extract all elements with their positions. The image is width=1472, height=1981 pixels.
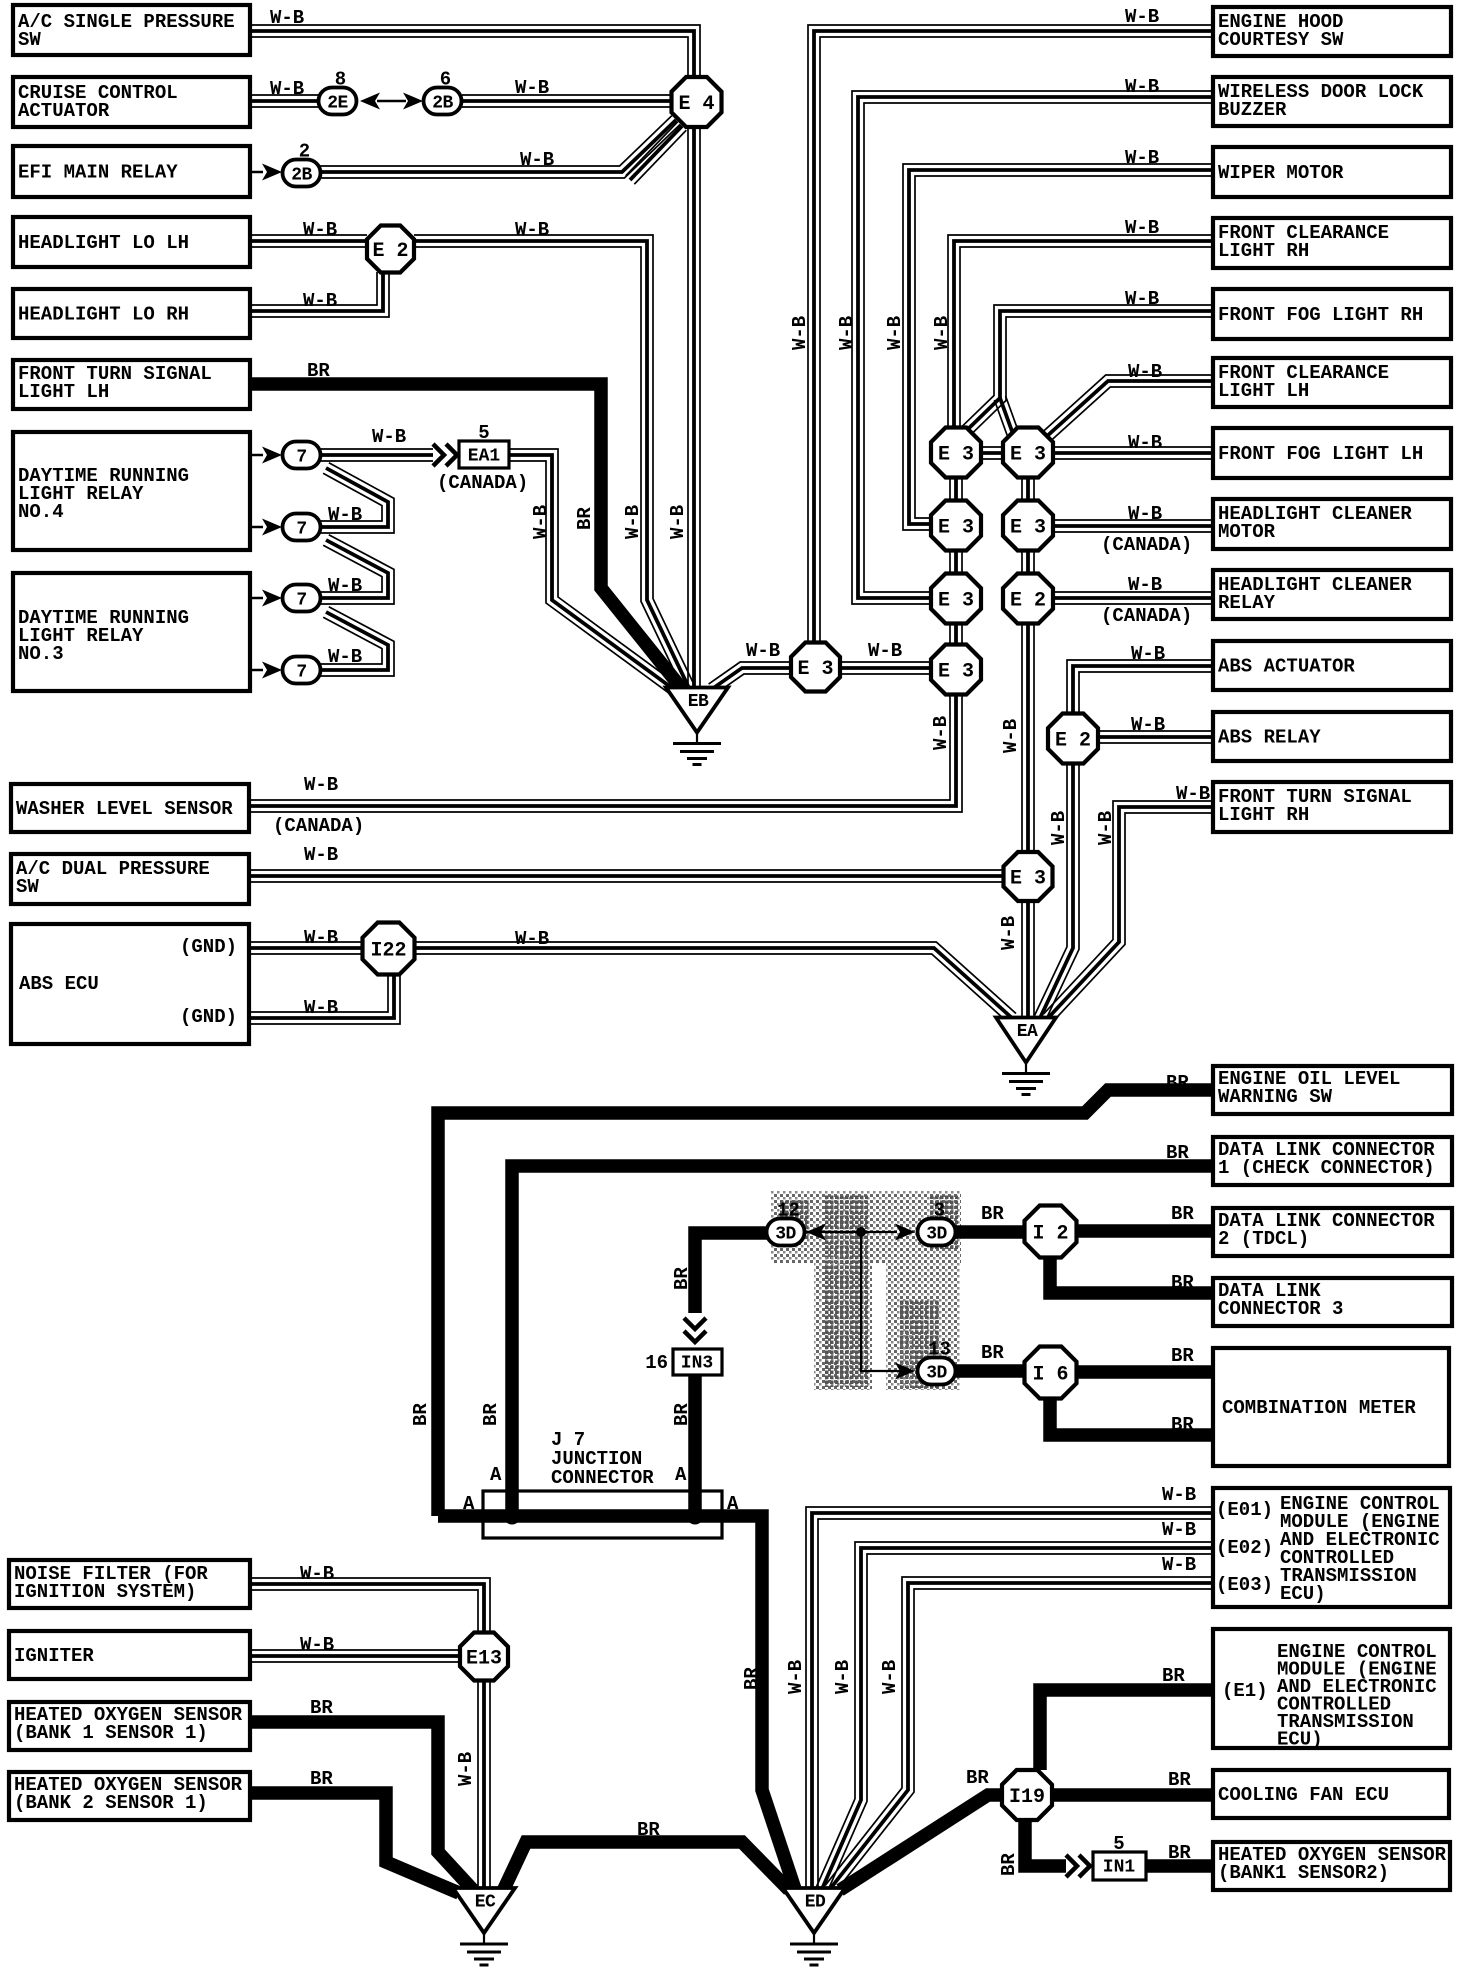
svg-text:BR: BR [1162,1665,1185,1687]
svg-text:SW: SW [18,29,41,51]
svg-text:W-B: W-B [931,316,953,350]
svg-text:W-B: W-B [1162,1484,1196,1506]
svg-text:E 3: E 3 [938,516,974,539]
svg-text:A/C SINGLE PRESSURE: A/C SINGLE PRESSURE [18,11,235,33]
svg-text:W-B: W-B [1131,643,1165,665]
svg-text:E 4: E 4 [678,93,714,116]
svg-text:ED: ED [805,1892,826,1912]
svg-text:BR: BR [966,1767,989,1789]
svg-text:W-B: W-B [1048,811,1070,845]
svg-text:W-B: W-B [530,505,552,539]
svg-text:W-B: W-B [1128,432,1162,454]
svg-text:E13: E13 [466,1647,502,1670]
svg-text:W-B: W-B [884,316,906,350]
svg-text:W-B: W-B [304,927,338,949]
svg-text:BUZZER: BUZZER [1218,99,1287,121]
svg-text:E 2: E 2 [1010,589,1046,612]
svg-text:W-B: W-B [515,219,549,241]
svg-text:(E1): (E1) [1222,1680,1268,1702]
svg-text:7: 7 [296,519,306,539]
svg-text:NO.4: NO.4 [18,501,64,523]
svg-text:W-B: W-B [303,290,337,312]
svg-text:2B: 2B [291,165,312,185]
svg-text:A: A [675,1464,687,1486]
svg-text:1 (CHECK CONNECTOR): 1 (CHECK CONNECTOR) [1218,1157,1435,1179]
svg-text:HEADLIGHT LO LH: HEADLIGHT LO LH [18,232,189,254]
svg-text:BR: BR [310,1697,333,1719]
svg-text:W-B: W-B [372,426,406,448]
svg-text:W-B: W-B [300,1634,334,1656]
svg-text:W-B: W-B [785,1660,807,1694]
svg-text:A/C DUAL PRESSURE: A/C DUAL PRESSURE [16,858,210,880]
svg-text:13: 13 [928,1339,951,1361]
svg-text:EA: EA [1017,1022,1038,1042]
svg-text:3D: 3D [926,1224,947,1244]
svg-text:E 3: E 3 [1010,867,1046,890]
svg-text:ABS ACTUATOR: ABS ACTUATOR [1218,656,1355,678]
svg-text:W-B: W-B [879,1660,901,1694]
svg-text:W-B: W-B [1000,719,1022,753]
svg-text:W-B: W-B [304,844,338,866]
svg-text:ABS RELAY: ABS RELAY [1218,727,1321,749]
svg-text:(CANADA): (CANADA) [273,815,364,837]
svg-text:W-B: W-B [1176,783,1210,805]
svg-text:BR: BR [1171,1203,1194,1225]
svg-text:LIGHT RH: LIGHT RH [1218,804,1309,826]
svg-text:COMBINATION METER: COMBINATION METER [1222,1397,1416,1419]
svg-text:A: A [727,1493,739,1515]
svg-text:E 2: E 2 [1055,729,1091,752]
svg-text:BR: BR [998,1853,1020,1876]
svg-text:LIGHT RH: LIGHT RH [1218,240,1309,262]
svg-text:IN3: IN3 [681,1353,713,1373]
svg-text:3: 3 [934,1200,945,1222]
svg-text:W-B: W-B [836,316,858,350]
svg-text:W-B: W-B [1125,6,1159,28]
svg-text:(E03): (E03) [1216,1574,1273,1596]
svg-text:16: 16 [645,1352,668,1374]
svg-text:6: 6 [440,69,451,91]
svg-text:SW: SW [16,876,39,898]
svg-text:(BANK 2 SENSOR 1): (BANK 2 SENSOR 1) [14,1792,208,1814]
svg-text:BR: BR [671,1403,693,1426]
svg-text:BR: BR [1171,1414,1194,1436]
svg-text:W-B: W-B [304,774,338,796]
svg-text:BR: BR [981,1203,1004,1225]
svg-text:W-B: W-B [520,149,554,171]
svg-text:FRONT FOG LIGHT LH: FRONT FOG LIGHT LH [1218,443,1423,465]
svg-text:W-B: W-B [1162,1554,1196,1576]
svg-text:W-B: W-B [515,77,549,99]
svg-text:2 (TDCL): 2 (TDCL) [1218,1228,1309,1250]
svg-text:WARNING SW: WARNING SW [1218,1086,1333,1108]
svg-text:W-B: W-B [1128,361,1162,383]
svg-text:W-B: W-B [746,640,780,662]
svg-text:5: 5 [1113,1833,1124,1855]
svg-text:BR: BR [1168,1769,1191,1791]
svg-text:W-B: W-B [789,316,811,350]
svg-text:BR: BR [741,1667,763,1690]
svg-text:I 2: I 2 [1032,1222,1068,1245]
svg-text:BR: BR [307,360,330,382]
svg-text:BR: BR [637,1819,660,1841]
svg-text:W-B: W-B [304,997,338,1019]
svg-text:EB: EB [688,692,709,712]
svg-text:(E02): (E02) [1216,1537,1273,1559]
svg-text:E 3: E 3 [938,589,974,612]
svg-text:BR: BR [1166,1072,1189,1094]
svg-text:W-B: W-B [1162,1519,1196,1541]
svg-text:NO.3: NO.3 [18,643,64,665]
svg-text:ECU): ECU) [1277,1729,1323,1751]
svg-text:E 3: E 3 [938,660,974,683]
svg-text:W-B: W-B [868,640,902,662]
svg-text:LIGHT LH: LIGHT LH [1218,380,1309,402]
svg-text:COURTESY SW: COURTESY SW [1218,29,1344,51]
svg-text:W-B: W-B [1128,503,1162,525]
svg-text:MOTOR: MOTOR [1218,521,1276,543]
svg-text:W-B: W-B [832,1660,854,1694]
svg-text:W-B: W-B [1125,288,1159,310]
svg-text:W-B: W-B [1125,76,1159,98]
svg-text:CONNECTOR: CONNECTOR [551,1467,654,1489]
svg-text:W-B: W-B [303,219,337,241]
svg-text:BR: BR [1166,1142,1189,1164]
svg-text:ECU): ECU) [1280,1583,1326,1605]
svg-text:WIPER MOTOR: WIPER MOTOR [1218,162,1344,184]
svg-text:W-B: W-B [667,505,689,539]
svg-text:HEADLIGHT LO RH: HEADLIGHT LO RH [18,304,189,326]
svg-text:BR: BR [1171,1272,1194,1294]
svg-text:IGNITER: IGNITER [14,1645,94,1667]
svg-text:3D: 3D [775,1224,796,1244]
svg-text:I 6: I 6 [1032,1363,1068,1386]
svg-text:WASHER LEVEL SENSOR: WASHER LEVEL SENSOR [16,798,233,820]
svg-text:(BANK 1 SENSOR 1): (BANK 1 SENSOR 1) [14,1722,208,1744]
svg-text:W-B: W-B [1131,714,1165,736]
svg-text:COOLING FAN ECU: COOLING FAN ECU [1218,1784,1389,1806]
svg-text:BR: BR [1171,1345,1194,1367]
svg-text:BR: BR [410,1403,432,1426]
svg-text:(GND): (GND) [180,1006,237,1028]
svg-text:A: A [463,1493,475,1515]
svg-text:W-B: W-B [300,1563,334,1585]
svg-text:W-B: W-B [328,646,362,668]
svg-text:3D: 3D [926,1363,947,1383]
svg-text:ABS ECU: ABS ECU [19,973,99,995]
svg-text:E 3: E 3 [1010,443,1046,466]
svg-text:I19: I19 [1009,1786,1045,1809]
svg-text:IGNITION SYSTEM): IGNITION SYSTEM) [14,1581,196,1603]
svg-text:ACTUATOR: ACTUATOR [18,100,110,122]
svg-text:W-B: W-B [1125,147,1159,169]
svg-text:(CANADA): (CANADA) [437,472,528,494]
svg-text:2B: 2B [432,93,453,113]
svg-text:BR: BR [574,507,596,530]
svg-text:W-B: W-B [328,504,362,526]
svg-text:FRONT FOG LIGHT RH: FRONT FOG LIGHT RH [1218,304,1423,326]
svg-text:E 2: E 2 [372,240,408,263]
svg-text:E 3: E 3 [1010,516,1046,539]
svg-text:W-B: W-B [622,505,644,539]
svg-text:2: 2 [299,141,310,163]
svg-text:EC: EC [475,1892,496,1912]
svg-text:CONNECTOR 3: CONNECTOR 3 [1218,1298,1343,1320]
svg-text:W-B: W-B [270,7,304,29]
svg-text:5: 5 [478,422,489,444]
svg-text:7: 7 [296,590,306,610]
svg-text:8: 8 [335,69,346,91]
svg-text:W-B: W-B [930,716,952,750]
svg-text:I22: I22 [370,939,406,962]
svg-text:W-B: W-B [1125,217,1159,239]
svg-text:LIGHT LH: LIGHT LH [18,381,109,403]
svg-text:(CANADA): (CANADA) [1101,534,1192,556]
svg-text:RELAY: RELAY [1218,592,1276,614]
svg-text:IN1: IN1 [1103,1857,1136,1877]
svg-text:EA1: EA1 [468,446,501,466]
svg-text:BR: BR [480,1403,502,1426]
svg-text:BR: BR [310,1768,333,1790]
svg-text:W-B: W-B [1128,574,1162,596]
svg-text:(CANADA): (CANADA) [1101,605,1192,627]
svg-text:BR: BR [981,1342,1004,1364]
svg-text:EFI MAIN RELAY: EFI MAIN RELAY [18,162,178,184]
svg-text:(GND): (GND) [180,936,237,958]
svg-text:(BANK1 SENSOR2): (BANK1 SENSOR2) [1218,1862,1389,1884]
svg-text:E 3: E 3 [797,658,833,681]
svg-text:7: 7 [296,662,306,682]
svg-text:W-B: W-B [1095,811,1117,845]
svg-text:E 3: E 3 [938,443,974,466]
svg-text:12: 12 [777,1200,800,1222]
svg-text:W-B: W-B [270,78,304,100]
svg-text:W-B: W-B [515,928,549,950]
svg-text:BR: BR [671,1267,693,1290]
svg-text:W-B: W-B [998,916,1020,950]
svg-text:(E01): (E01) [1216,1499,1273,1521]
svg-text:W-B: W-B [455,1752,477,1786]
svg-text:2E: 2E [327,93,348,113]
svg-text:W-B: W-B [328,575,362,597]
svg-text:A: A [490,1464,502,1486]
svg-text:7: 7 [296,447,306,467]
svg-text:BR: BR [1168,1842,1191,1864]
